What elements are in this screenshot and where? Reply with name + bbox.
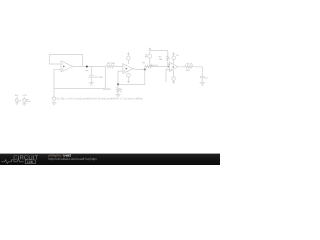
wire U3 output	[178, 66, 185, 68]
op-amp U3	[170, 62, 178, 72]
logo LAB box	[25, 160, 35, 164]
resistor R2	[106, 62, 115, 68]
logo waveform	[2, 159, 24, 163]
svg-text:SW: SW	[15, 94, 18, 97]
resistor R5	[185, 63, 193, 73]
ground (S2)	[22, 104, 26, 106]
voltage source V1	[52, 97, 55, 102]
voltage source S2	[23, 94, 31, 104]
resistor R6 to ground	[117, 84, 123, 94]
wire U2 feedback loop	[118, 70, 145, 85]
ground (C1)	[89, 83, 94, 85]
wire R2 to U2	[114, 65, 123, 67]
resistor R4 (feedback)	[159, 55, 169, 66]
node D (junction dot R4/main wire)	[167, 66, 169, 68]
capacitor C1	[89, 66, 104, 82]
node out1 (junction dot)	[86, 66, 88, 68]
svg-text:http://circuitlab.com/cca2d7oq: http://circuitlab.com/cca2d7oq73lpv	[49, 157, 98, 161]
wire R3 to U3	[152, 64, 169, 67]
ground (V1)	[52, 102, 57, 104]
power V- arrow below U3	[172, 70, 175, 83]
resistor R3	[142, 61, 158, 69]
ground (S1)	[15, 103, 19, 105]
op-amp U2	[123, 64, 133, 74]
svg-text:out: out	[85, 69, 88, 72]
ground (R6)	[116, 94, 121, 96]
svg-text:LAB: LAB	[27, 160, 33, 164]
svg-text:V1 V(t) = 2.5+2.5*sin(2*pi*40: V1 V(t) = 2.5+2.5*sin(2*pi*400*t)+0.25*s…	[56, 97, 143, 100]
wire R5 to C3	[193, 67, 202, 77]
power V+ arrow above U3	[172, 52, 180, 63]
wire U1 non-inverting input to V1	[54, 69, 61, 97]
node B (junction dot U2 output)	[144, 69, 146, 71]
power V- arrow below U2	[127, 73, 131, 83]
svg-text:CIRCUIT: CIRCUIT	[13, 155, 38, 162]
svg-text:V3: V3	[19, 99, 21, 102]
voltage source S1	[15, 94, 21, 103]
wire U2 output	[133, 68, 145, 71]
wire U1 output	[73, 65, 106, 67]
node C (junction dot on rail)	[117, 83, 119, 85]
svg-text:C1 1uF: C1 1uF	[95, 76, 103, 79]
svg-text:R5 1k: R5 1k	[187, 63, 194, 66]
named node flag V2	[145, 47, 152, 66]
op-amp U1	[61, 61, 73, 72]
capacitor C3	[200, 76, 208, 82]
wire ground rail from V1 branch to C2	[54, 87, 105, 89]
wire U3 non-inverting input	[166, 69, 170, 81]
power V+ arrow above U2	[126, 52, 130, 64]
ground (C3)	[200, 83, 205, 85]
capacitor C2	[103, 66, 112, 91]
wire U3 feedback top	[150, 51, 168, 56]
svg-text:R2 10k: R2 10k	[107, 62, 115, 65]
svg-text:1kHz: 1kHz	[26, 100, 30, 103]
wire U1 feedback loop	[49, 55, 82, 67]
